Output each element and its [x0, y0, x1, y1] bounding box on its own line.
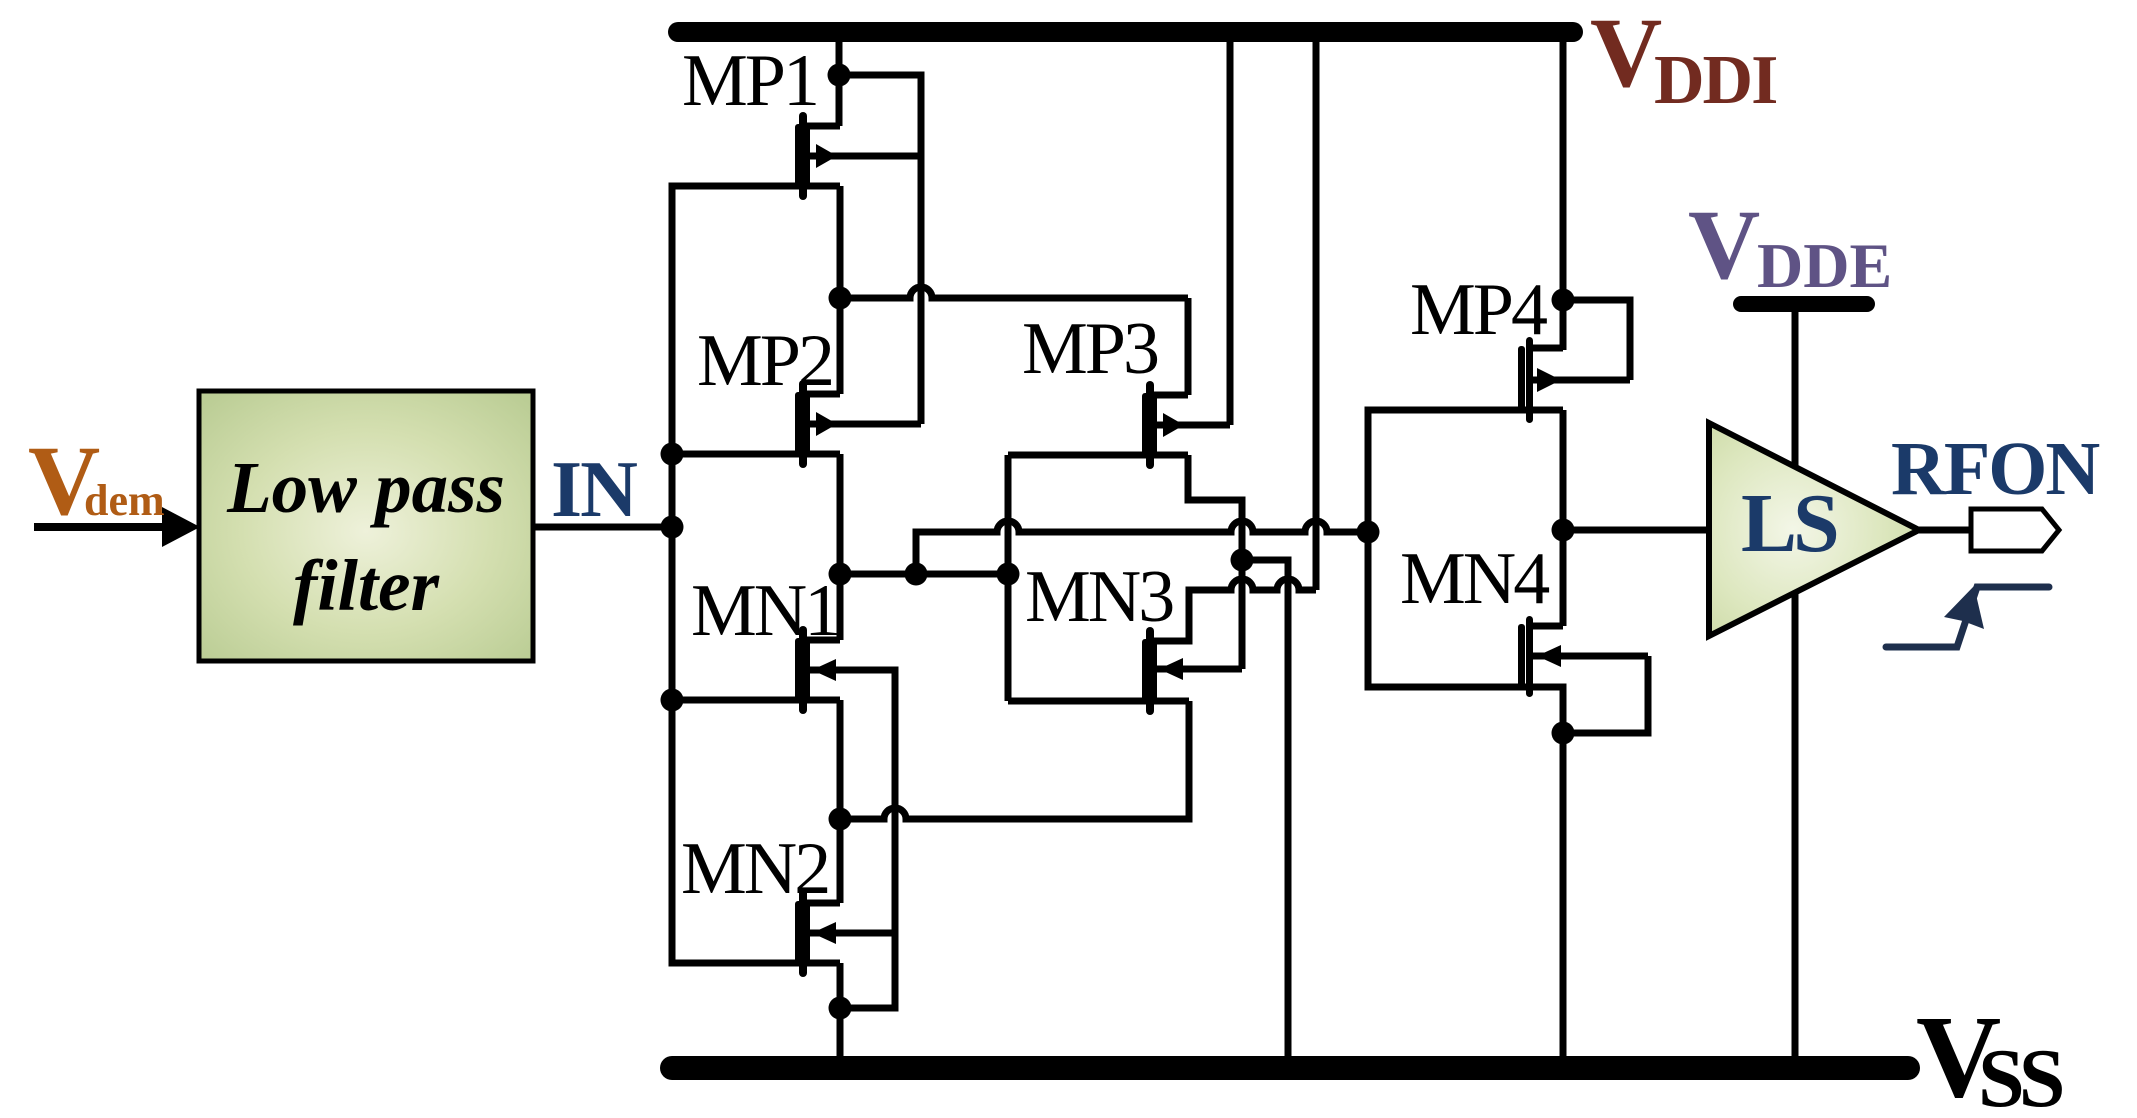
supply bar VDDE	[1741, 296, 1867, 312]
node MN4 source tap	[1552, 722, 1575, 745]
wire MP4 drain right drop	[1560, 410, 1567, 626]
node LS input	[1552, 519, 1575, 542]
wire MP1 drain to MP2 source	[837, 186, 844, 394]
transistor MN2	[795, 889, 895, 977]
wire MN1 gate bus	[807, 670, 895, 1008]
wire IN bus	[672, 186, 840, 963]
buffer LS	[1709, 423, 1919, 636]
svg-text:V: V	[1590, 0, 1662, 108]
block low pass filter	[199, 391, 533, 661]
wire MP1 gate loop vertical	[839, 75, 921, 424]
wire LS input	[1563, 527, 1709, 534]
svg-text:SS: SS	[1978, 1032, 2063, 1118]
node output riser	[905, 563, 928, 586]
wire MN2 source to VSS	[837, 963, 844, 1062]
input arrow Vdem	[34, 523, 164, 531]
node MN3 gate junction	[1231, 549, 1254, 572]
svg-text:DDI: DDI	[1654, 42, 1776, 119]
node IN on bus	[661, 516, 684, 539]
wire LS output	[1919, 527, 1972, 534]
node MP2 drain on bus	[661, 443, 684, 466]
svg-text:Low pass: Low pass	[226, 447, 505, 528]
svg-text:RFON: RFON	[1891, 427, 2099, 511]
node main row to MP4-MN4	[1357, 521, 1380, 544]
node output to MP3 column	[997, 563, 1020, 586]
ground rail VSS	[672, 1056, 1908, 1080]
svg-text:MN3: MN3	[1025, 556, 1173, 638]
svg-text:LS: LS	[1741, 477, 1837, 570]
svg-text:MP1: MP1	[682, 40, 817, 122]
node MN1-MN2 junction	[829, 808, 852, 831]
transistor MP1	[795, 112, 921, 200]
wire node298 to MP3 source	[840, 287, 1188, 395]
node output 1	[829, 563, 852, 586]
svg-text:dem: dem	[84, 476, 165, 525]
svg-text:IN: IN	[551, 446, 637, 534]
wire VDDE drop to VSS	[1792, 304, 1799, 1062]
transistor MP2	[672, 380, 921, 468]
svg-text:MN1: MN1	[691, 570, 838, 652]
wire LPF to IN bus	[533, 524, 672, 531]
svg-text:MP3: MP3	[1022, 308, 1158, 390]
node MN1 source on bus	[661, 689, 684, 712]
wire VDDI to MP4 source	[1560, 32, 1567, 350]
transistor MP3	[1008, 381, 1230, 469]
wire node819 to MN3 source	[840, 701, 1189, 819]
wire MN1 source to MN2 drain	[837, 700, 844, 903]
transistor MN4	[1518, 616, 1648, 697]
power rail VDDI	[678, 22, 1573, 42]
wire MP2 drain to MN1 drain	[837, 454, 844, 640]
wire MP3 drain jog down	[1188, 455, 1242, 669]
icon rising edge	[1886, 586, 2049, 647]
wire MN3 drain to VDDI riser	[1150, 32, 1316, 641]
transistor MN1	[672, 626, 840, 714]
svg-text:filter: filter	[293, 545, 440, 626]
wire MP3 gate to VDDI	[1227, 32, 1234, 425]
node MP1-MP2 junction	[829, 287, 852, 310]
wire MP3 drain left jog down	[1005, 455, 1012, 701]
wire MP4 drain left drop	[1368, 410, 1563, 1062]
wire MN4 gate loop	[1563, 656, 1648, 733]
svg-text:DDE: DDE	[1757, 230, 1892, 301]
wire node560 to VSS drop	[1242, 560, 1288, 1062]
svg-text:V: V	[1688, 189, 1760, 300]
node MN2 source tap	[829, 997, 852, 1020]
wire MP4 gate loop	[1563, 300, 1630, 380]
port RFON tag	[1971, 509, 2059, 551]
wire inverter output row	[840, 571, 1008, 578]
svg-text:MP4: MP4	[1410, 269, 1547, 351]
svg-text:MN2: MN2	[681, 828, 828, 910]
transistor MP4	[1518, 337, 1630, 423]
wire output riser up	[916, 521, 1368, 574]
node MP1 drain tap	[828, 64, 851, 87]
wire VDDI to MP1 source	[836, 32, 843, 126]
transistor MN3	[1008, 627, 1242, 715]
svg-text:MN4: MN4	[1400, 538, 1549, 620]
node MP4 drain tap	[1552, 289, 1575, 312]
svg-text:MP2: MP2	[697, 320, 832, 402]
